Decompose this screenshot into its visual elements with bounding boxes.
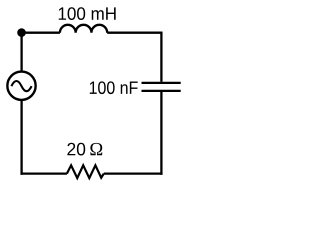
inductor L1 100 mH [60, 25, 107, 33]
wire right vertical lower (capacitor to bottom corner) [160, 92, 162, 175]
AC source V1 circle [7, 72, 35, 100]
resistor R1 20 ohm zigzag [67, 165, 104, 178]
wire top-left horizontal (node to inductor) [22, 32, 60, 34]
wire bottom-left horizontal (corner to resistor) [20, 172, 66, 174]
label 20 (resistor value) [67, 143, 85, 156]
wire top-right horizontal (inductor to right corner) [107, 32, 161, 34]
label 100 nF [90, 81, 138, 94]
label ohm symbol [90, 143, 102, 155]
AC source sine wave [11, 81, 31, 91]
label 100 mH [59, 7, 116, 20]
wire left vertical lower (source to bottom corner) [20, 101, 22, 175]
capacitor C1 top plate [142, 82, 181, 84]
wire bottom-right horizontal (resistor to corner) [104, 172, 163, 174]
wire right vertical upper (corner to capacitor top plate) [160, 32, 162, 82]
capacitor C1 bottom plate [142, 90, 181, 92]
node junction dot top-left [17, 28, 26, 37]
wire left vertical upper (node to source) [20, 33, 22, 71]
